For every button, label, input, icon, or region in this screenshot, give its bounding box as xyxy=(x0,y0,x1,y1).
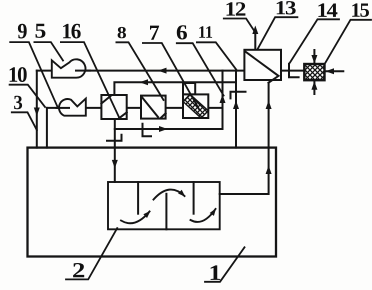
leader 12 xyxy=(224,19,256,33)
wire: chamber suction vertical left xyxy=(46,108,48,148)
heater 7 (box C, hatched) xyxy=(183,94,208,118)
label 8 xyxy=(118,27,126,38)
heat exchanger 16 (box A) xyxy=(101,95,126,119)
wire: top pipe from corner to condenser 13 xyxy=(37,70,245,72)
leader 1 xyxy=(205,247,245,281)
wire: filter 15 right stub xyxy=(325,70,344,72)
baffle right of box 2 xyxy=(193,182,195,214)
label 2 xyxy=(73,263,84,277)
damper 11 on recirculation vertical xyxy=(231,92,246,99)
leader 8 xyxy=(116,42,163,100)
leader 2 xyxy=(66,228,117,279)
damper on drop into chamber xyxy=(107,135,122,141)
wire: heat exchanger 16 to 8 xyxy=(127,107,141,109)
arrow down into box 2 xyxy=(112,160,118,169)
wire: bypass duct bottom xyxy=(115,128,223,130)
drying chamber box 1 xyxy=(28,148,277,257)
leader 15 xyxy=(326,20,372,63)
leader 14 xyxy=(290,19,339,62)
wire: condenser 13 to filter 15 xyxy=(281,70,304,72)
circulation arrowhead middle xyxy=(178,190,187,199)
wire: bypass duct right vertical xyxy=(222,71,224,129)
fan 9 xyxy=(59,99,86,116)
circulation arrow right xyxy=(191,209,216,222)
wire: exhaust stem 12 xyxy=(254,30,256,50)
box A corner tick NW xyxy=(101,96,111,104)
inner circulation box 2 xyxy=(108,182,220,229)
leader 9 xyxy=(10,42,58,108)
arrow right on duct bottom xyxy=(159,126,168,132)
leader 10 xyxy=(10,85,45,107)
label 7 xyxy=(150,26,159,40)
box C hatch band xyxy=(183,94,208,118)
arrow up on recirculation vertical xyxy=(233,101,239,110)
wire: recirculation vertical 11 xyxy=(235,71,237,148)
box B diagonal xyxy=(142,97,158,117)
label 11 xyxy=(199,26,212,38)
wire: filter 15 bottom stub xyxy=(313,80,315,94)
baffle left of box 2 xyxy=(137,182,139,214)
heat exchanger 8 (box B) xyxy=(141,96,166,119)
fan 9 shaft line xyxy=(57,107,70,109)
wire: heat exchanger 8 to heater 7 xyxy=(166,107,183,109)
circulation arrowhead right xyxy=(210,207,219,216)
leader 16 xyxy=(61,42,120,119)
wire: fan 9 left connection xyxy=(47,107,69,109)
condenser 13 xyxy=(244,50,281,80)
arrow up into filter 15 xyxy=(311,81,317,90)
label 15 xyxy=(352,3,369,17)
arrow up on duct right vertical xyxy=(220,95,226,104)
label 5 xyxy=(36,24,46,38)
label 13 xyxy=(277,1,296,14)
circulation arrow middle xyxy=(154,190,185,200)
label 1 xyxy=(211,265,221,280)
arrow left into filter 15 xyxy=(326,68,335,74)
arrow left on duct top xyxy=(140,79,149,85)
wire: chamber exit to condenser 13 xyxy=(220,83,269,194)
condenser 13 diagonal xyxy=(245,51,279,82)
label 10 xyxy=(10,67,27,82)
arrow down into filter 15 xyxy=(311,55,317,64)
fan 5 xyxy=(52,59,86,77)
arrow up exhaust 12 xyxy=(252,26,258,35)
arrow down on fresh-air vertical xyxy=(34,108,40,117)
leader 7 xyxy=(143,43,200,110)
arrow left on top pipe xyxy=(158,68,167,74)
label 14 xyxy=(318,3,337,16)
arrow up on condenser feed xyxy=(266,101,272,110)
label 12 xyxy=(227,2,246,15)
arrowheads xyxy=(34,26,334,218)
leader 3 xyxy=(12,112,37,130)
wire: heater 7 to bypass duct xyxy=(208,107,222,109)
leader 6 xyxy=(177,43,224,95)
arrow up inside chamber xyxy=(266,166,272,175)
circulation arrowhead left xyxy=(143,209,152,218)
baffle middle of box 2 xyxy=(165,194,167,230)
damper on bypass duct bottom xyxy=(143,124,152,136)
label 16 xyxy=(63,24,81,39)
fan 5 shaft line xyxy=(76,70,90,72)
leader 13 xyxy=(258,17,298,49)
wire: filter 15 top stub xyxy=(313,50,315,64)
wire: fan 9 to heat exchanger 16 xyxy=(86,107,102,109)
box A corner tick SE xyxy=(119,112,127,118)
circulation arrow left xyxy=(121,212,150,224)
filter 15 (hatched box) xyxy=(304,64,324,80)
leader 11 xyxy=(197,42,237,70)
wire: fresh-air vertical left xyxy=(36,71,38,148)
wire: drop from heat exchanger 16 into chamber xyxy=(114,119,116,182)
leader 5 xyxy=(34,42,63,60)
label 3 xyxy=(14,96,22,110)
heater 7 header box xyxy=(183,83,195,94)
label 6 xyxy=(177,25,187,39)
box B corner tick SE xyxy=(161,113,166,117)
wire: bypass duct top with stub down to box 16 xyxy=(114,82,236,95)
damper 14 xyxy=(289,64,299,78)
label 9 xyxy=(18,24,27,39)
